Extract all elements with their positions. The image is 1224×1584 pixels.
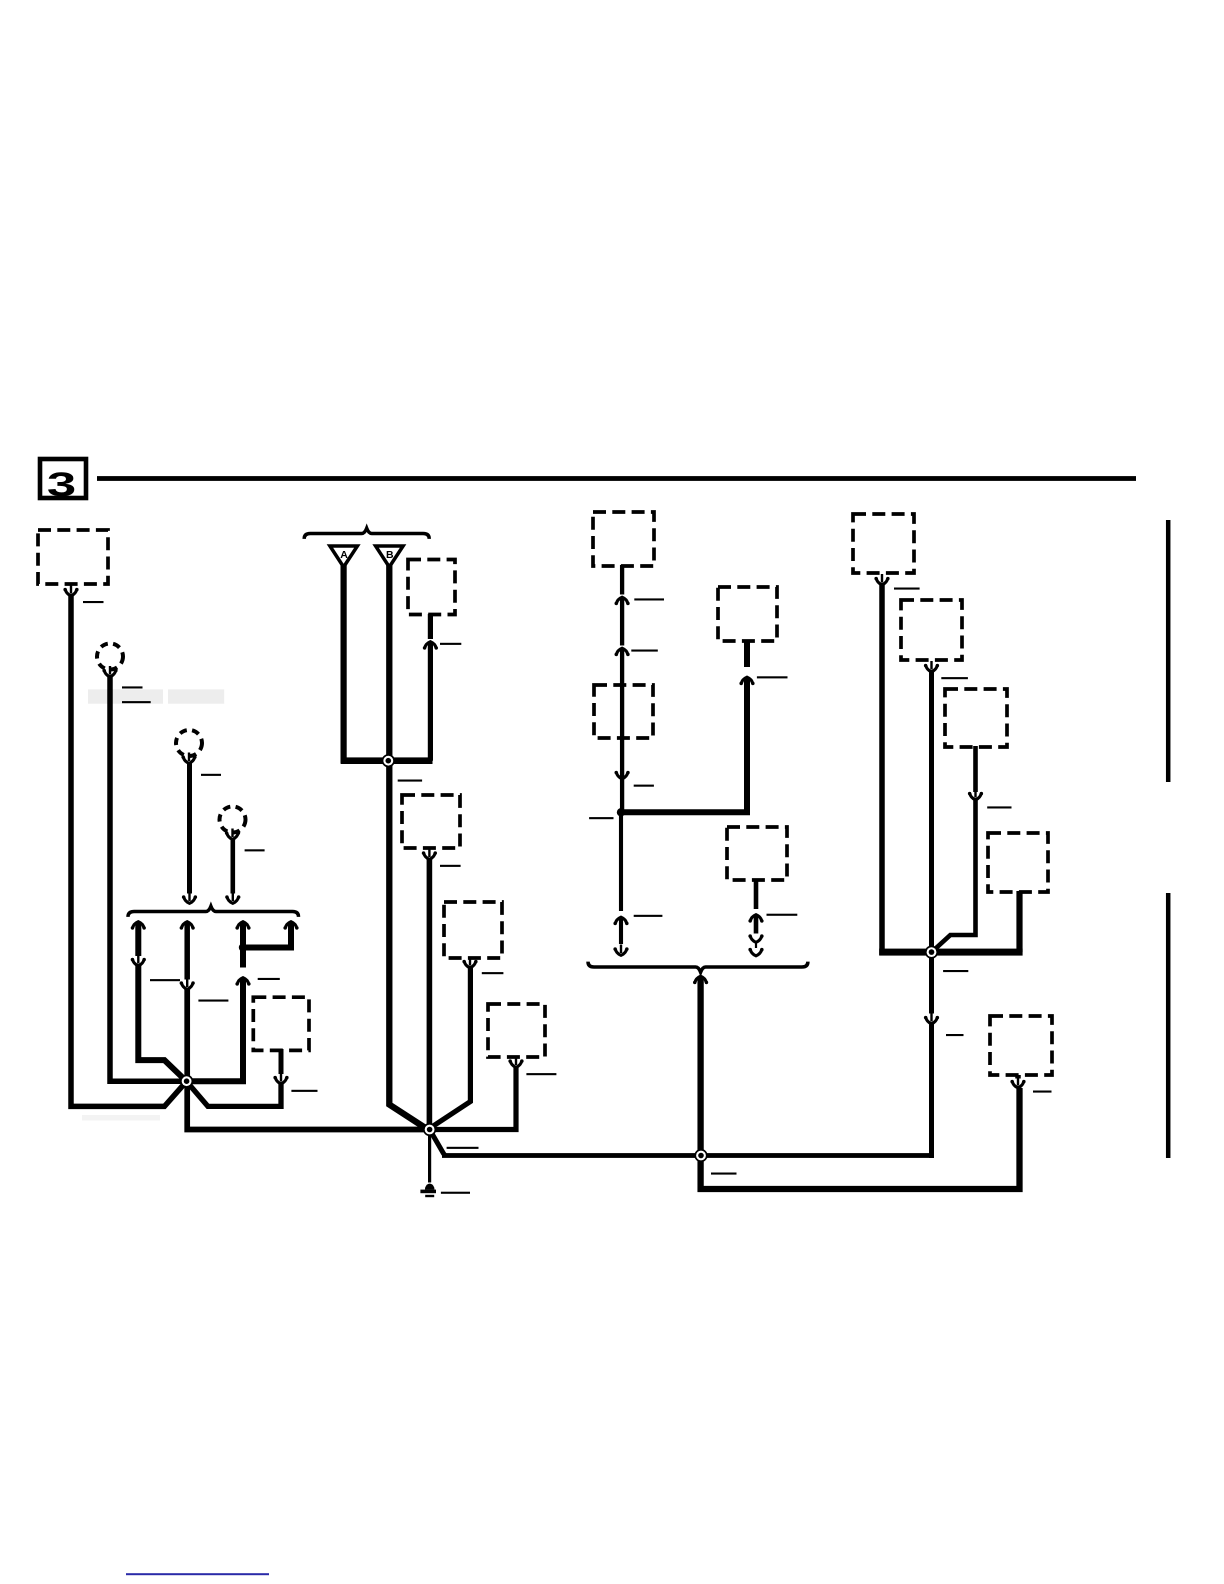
arrow on wire to box R5 [1010,1077,1025,1088]
wire from CB3 to junction S2 [429,966,470,1129]
splice dot W3/W4 [239,943,247,951]
right margin bar lower [1166,893,1171,1158]
wire label tick M2 [634,785,654,787]
in-line connector circle X1 [97,644,123,670]
junction S5 (right cluster) [925,946,938,959]
hyperlink underline at page bottom [126,1573,269,1575]
ground wire from S2 [428,1133,431,1183]
arrow below box L2 [273,1073,288,1084]
component box M3 [718,587,777,641]
wire stub below box R5 [1015,1075,1021,1079]
wire label tick R5 [1033,1091,1052,1093]
wire label tick M4a [634,915,663,917]
arrow from box L1 [63,585,78,596]
wire label tick W2 [198,1000,228,1002]
branch wire W3 with arrows [235,922,250,933]
antenna bus [341,757,433,764]
wire label tick M1b [631,650,658,652]
arrow below box M2 [615,768,630,779]
wire from R4 down to right bus [1016,891,1022,952]
in-line connector circle X2 [176,730,202,756]
wire from CB2 straight into junction S2 [427,858,433,1132]
wire label tick interlink [447,1147,479,1149]
wire label tick R2b [943,970,968,972]
highlight rectangle left 1 [88,689,163,703]
component box R1 [853,514,914,573]
branch wire W1 lower part into junction S1 [138,965,188,1083]
antenna triangle A [330,546,358,567]
wire label tick R3 [987,806,1011,808]
highlight bar lower left [82,1115,160,1121]
wire label ticks X1 [122,686,143,688]
wire from CB4 down then left into junction S2 [430,1066,516,1130]
component box CB1 [408,560,455,615]
wire label tick left of splice M [589,817,613,819]
wire label tick X3 [245,849,265,851]
arrow below box CB3 [462,957,477,968]
wire from R3 to junction S5 [930,798,975,953]
long interlink line to right cluster corner [442,1153,934,1158]
arrow below box R1 [874,574,889,585]
arrow below box R3 [968,789,983,800]
component box R3 [945,689,1007,747]
wire from M4 down to underbrace with arrows [754,879,759,909]
trunk wire from underbrace through junction S4 down, then right and up to box R5 [701,978,1020,1190]
wire label tick CB3 [482,972,504,974]
wire from R1 down to right bus corner [882,583,886,952]
wire label tick M4b [767,914,798,916]
component box M1 [593,512,654,566]
wire label tick L1 [83,601,104,603]
arrow below circle X3 [225,829,240,840]
branch wire W3 down then left into junction S1 [186,979,243,1081]
branch wire W4 to splice dot [283,922,298,933]
arrow below circle X1 [102,666,117,677]
wire from X1 down then right into junction S1 [110,675,189,1081]
ground label tick [441,1192,470,1194]
wire label tick below S4 [711,1173,737,1175]
wire label tick R1 [894,588,920,590]
component box M2 (wire passes through) [594,685,653,738]
splice brace left cluster [128,906,299,917]
wire label tick W3 [258,978,280,980]
wire from M1 down with arrows [620,565,624,595]
wire label tick R2c [946,1034,964,1036]
wire stub below box R3 [973,746,978,792]
component box R2 [901,600,962,660]
wire from R2 below junction S5 to interlink corner [929,1023,932,1156]
junction S3 on antenna bus [382,754,395,767]
right margin bar upper [1166,520,1171,782]
wire from splice M down to underbrace with arrows [619,812,623,911]
junction S2 (centre star junction) [423,1123,436,1136]
antenna triangle B [376,546,404,567]
highlight rectangle left 2 [168,689,224,703]
wire from CB1 down to bus corner [428,643,433,761]
right bus [879,949,1022,956]
wire label tick CB4 [526,1073,556,1075]
component box L1 (top left) [38,530,108,584]
branch wire W1 upper part with arrows [131,922,146,933]
antenna brace [304,528,429,539]
arrow below circle X2 [181,753,196,764]
component box R4 [988,833,1048,892]
wire from X3 to splice brace, with end arrow [231,838,236,894]
branch from junction S2 to long interlink line [430,1130,445,1156]
component box CB2 [402,795,460,848]
svg-text:A: A [340,549,348,561]
component box CB3 [444,902,502,958]
component box L2 [253,997,309,1050]
wire label tick X2 [201,774,221,776]
wire label tick L2 [291,1090,317,1092]
wire from L1 down and right into junction S1 [71,594,189,1106]
wire label tick M3 [757,676,788,678]
wire label tick W1 [150,979,180,981]
wire label tick R2a [941,677,968,679]
wire label tick M1a [634,598,664,600]
wire from X2 to splice brace, with end arrow [187,762,192,894]
wire label tick CB1 [440,643,461,645]
svg-text:B: B [386,549,394,561]
wire from box L2 down then left into junction S1 [185,1080,281,1107]
branch wire W2 upper part with arrows [180,922,195,933]
wire label tick CB2 [440,865,461,867]
component box R5 [990,1016,1052,1075]
splice dot M on wire [617,808,625,816]
underbrace centre cluster [588,962,808,973]
arrow below box R2 [924,661,939,672]
arrow below underbrace [693,976,708,987]
ground symbol G1 [425,1184,435,1190]
junction S1 (left star junction) [180,1075,193,1088]
wire from R2 down through junction S5 [929,670,934,1014]
branch wire from splice M to box M3 [621,678,747,812]
junction S4 on interlink line [694,1149,707,1162]
up arrow on CB1 wire [423,642,438,653]
in-line connector circle X3 [220,807,246,833]
component box CB4 [488,1004,545,1057]
arrow below box CB2 [422,849,437,860]
svg-text:3: 3 [47,466,76,504]
wire stub below box L2 [279,1049,284,1074]
wire from antenna B through junction S3 down to junction S2 [389,565,430,1131]
branch wire W2 through junction S1 then main bus to junction S2 [187,989,429,1130]
component box M4 [727,827,787,880]
wire stub below box CB1 [428,614,433,639]
wire from antenna A to bus corner [344,565,391,761]
top horizontal rule [97,476,1136,481]
wire label tick below antenna bus [398,780,422,782]
arrow below box CB4 [508,1057,523,1068]
page-number box frame [40,459,86,498]
